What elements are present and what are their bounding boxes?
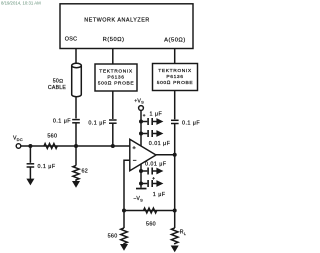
svg-text:1 μF: 1 μF xyxy=(153,192,166,198)
capacitor 0.01uF top with ground xyxy=(141,130,163,137)
svg-text:0.01 μF: 0.01 μF xyxy=(145,161,167,167)
svg-text:+VS: +VS xyxy=(134,98,144,104)
label 50 ohm cable xyxy=(48,78,67,91)
wire and ground for shunt cap xyxy=(29,167,31,179)
feedback wire from minus input xyxy=(124,160,130,210)
wire cap to main line R xyxy=(112,123,114,146)
svg-text:8/19/2014, 10:31 AM: 8/19/2014, 10:31 AM xyxy=(1,1,41,6)
svg-text:560: 560 xyxy=(108,234,118,240)
wire A line down to output and load xyxy=(174,124,176,211)
svg-text:62: 62 xyxy=(82,169,89,175)
svg-text:TEKTRONIX: TEKTRONIX xyxy=(99,68,133,74)
tektronix probe A text xyxy=(157,68,194,86)
op-amp output wire xyxy=(156,154,175,156)
positive supply rail xyxy=(140,110,142,146)
svg-text:0.1 μF: 0.1 μF xyxy=(38,164,56,170)
svg-text:CABLE: CABLE xyxy=(48,85,67,91)
wire cable to cap xyxy=(75,97,77,119)
svg-text:+: + xyxy=(143,113,146,118)
junction bypass 0.01uF top xyxy=(139,132,143,136)
svg-text:P6136: P6136 xyxy=(166,74,183,80)
svg-text:50Ω: 50Ω xyxy=(53,78,64,84)
wire R probe to cap xyxy=(112,91,114,119)
svg-text:1 μF: 1 μF xyxy=(150,111,163,117)
junction bypass 1uF bottom xyxy=(139,182,143,186)
junction output node xyxy=(173,153,177,157)
junction R node xyxy=(111,144,115,148)
+VS terminal xyxy=(139,106,144,111)
wire cap to main line xyxy=(75,123,77,146)
negative supply rail xyxy=(140,164,142,188)
resistor 560 to ground xyxy=(121,228,128,244)
bottom feedback wire xyxy=(124,210,175,212)
junction bypass 0.01uF bottom xyxy=(139,169,143,173)
ground 560 xyxy=(120,244,128,251)
main input wire xyxy=(21,145,130,147)
svg-text:500Ω PROBE: 500Ω PROBE xyxy=(157,80,194,86)
wire down to 62 resistor xyxy=(75,146,77,166)
junction output bottom node xyxy=(173,209,177,213)
tektronix probe box R xyxy=(95,64,137,91)
svg-text:TEKTRONIX: TEKTRONIX xyxy=(158,68,192,74)
junction OSC node xyxy=(74,144,78,148)
svg-text:P6136: P6136 xyxy=(107,74,124,80)
resistor 560 feedback xyxy=(144,208,157,213)
svg-text:+: + xyxy=(152,176,155,181)
svg-text:0.1 μF: 0.1 μF xyxy=(53,119,71,125)
junction VDC node xyxy=(28,144,32,148)
svg-text:RL: RL xyxy=(180,230,187,236)
capacitor 0.01uF bottom with ground xyxy=(141,168,163,175)
wire A probe to cap xyxy=(174,91,176,120)
junction bypass 1uF top xyxy=(139,120,143,124)
50 ohm cable (coax cylinder) xyxy=(72,63,82,96)
capacitor 0.1uF (osc line) xyxy=(72,120,80,123)
resistor RL xyxy=(171,228,178,244)
svg-text:560: 560 xyxy=(146,222,156,228)
svg-text:−: − xyxy=(133,157,137,164)
tektronix probe R text xyxy=(98,68,135,86)
wire down to shunt cap xyxy=(29,146,31,163)
ground RL xyxy=(171,246,179,253)
svg-text:A(50Ω): A(50Ω) xyxy=(164,38,186,44)
svg-text:R(50Ω): R(50Ω) xyxy=(103,37,125,43)
wire down to 560 ground resistor xyxy=(123,211,125,229)
capacitor 0.1uF (A line) xyxy=(171,120,179,123)
wire R probe stub xyxy=(112,49,114,65)
svg-text:500Ω PROBE: 500Ω PROBE xyxy=(98,81,135,87)
svg-text:NETWORK ANALYZER: NETWORK ANALYZER xyxy=(84,18,150,24)
svg-text:0.1 μF: 0.1 μF xyxy=(182,121,200,127)
resistor 560 input xyxy=(44,144,57,149)
capacitor 1uF bottom with ground xyxy=(141,180,163,187)
tektronix probe box A xyxy=(153,64,198,91)
svg-text:VDC: VDC xyxy=(13,136,23,142)
junction feedback node xyxy=(122,209,126,213)
VDC terminal xyxy=(16,144,21,149)
resistor 62 xyxy=(73,166,79,182)
wire OSC stub xyxy=(75,49,77,64)
svg-text:0.01 μF: 0.01 μF xyxy=(149,141,171,147)
svg-text:0.1 μF: 0.1 μF xyxy=(88,120,106,126)
wire down to RL xyxy=(174,211,176,229)
-VS terminal bar xyxy=(136,188,147,190)
capacitor 0.1uF shunt xyxy=(27,164,35,167)
ground 62 xyxy=(72,181,80,188)
svg-text:−VS: −VS xyxy=(133,196,143,202)
ground shunt cap xyxy=(26,179,34,186)
svg-text:560: 560 xyxy=(47,133,57,139)
capacitor 1uF top with ground xyxy=(141,118,163,125)
op-amp U1 xyxy=(130,139,156,170)
svg-text:OSC: OSC xyxy=(65,36,78,42)
network analyzer box xyxy=(60,4,193,49)
wire A probe stub xyxy=(174,49,176,64)
capacitor 0.1uF (R line) xyxy=(109,120,117,123)
